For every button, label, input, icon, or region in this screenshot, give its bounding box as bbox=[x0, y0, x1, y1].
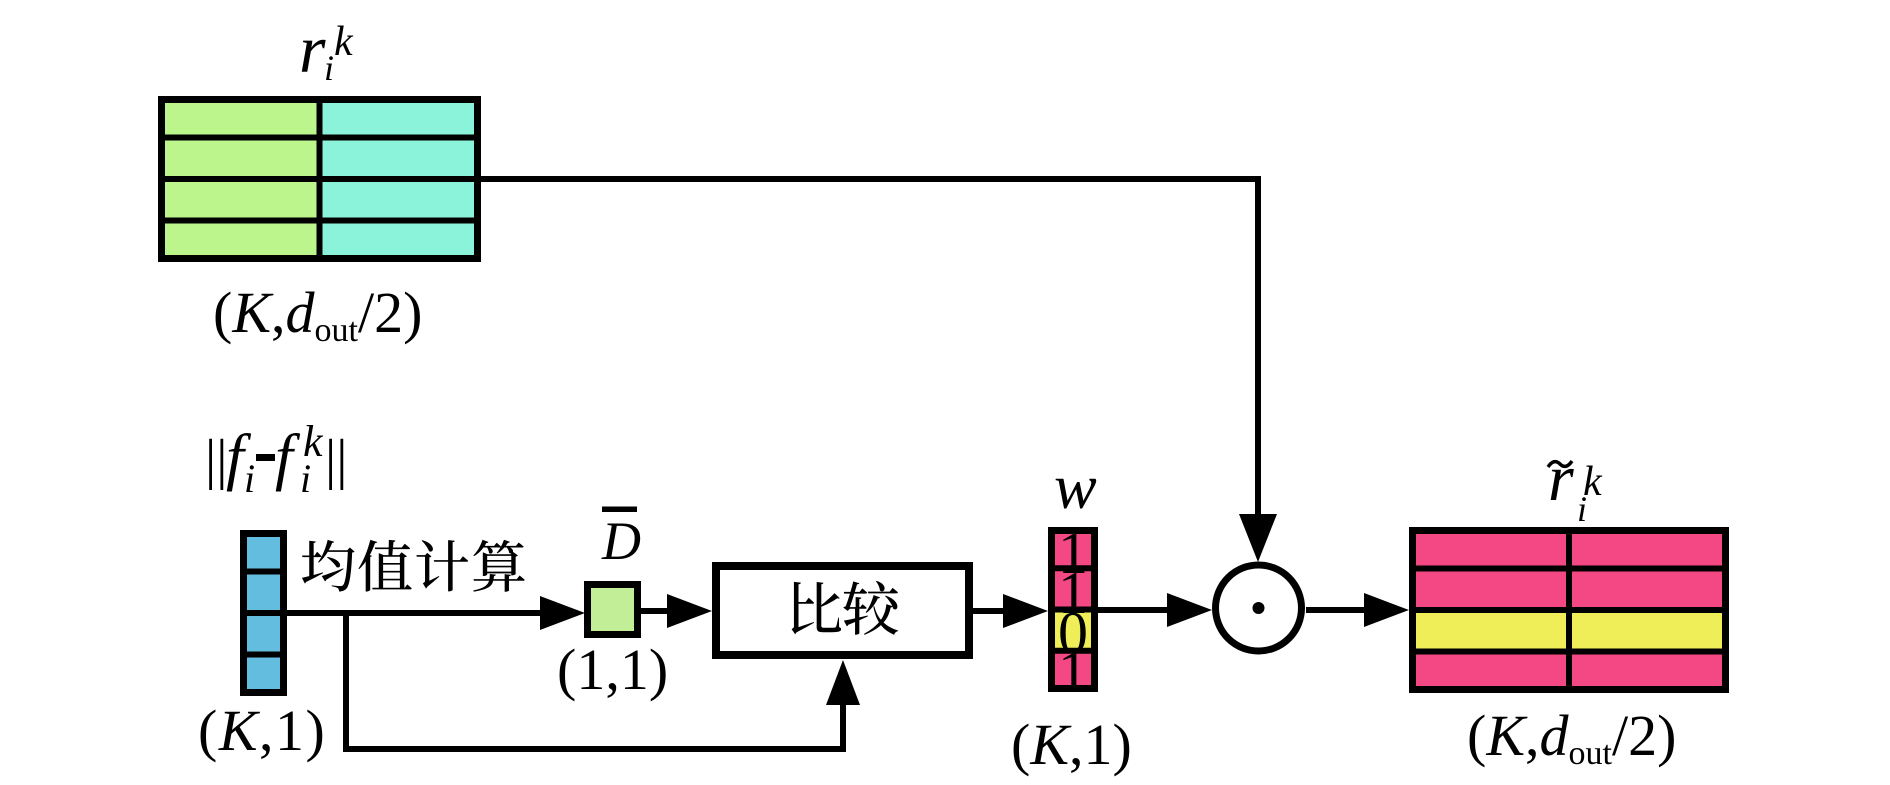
svg-text:(K,1): (K,1) bbox=[1011, 712, 1132, 777]
wire D to compare box bbox=[641, 608, 672, 614]
wire compare box to w bbox=[973, 608, 1008, 614]
wire matrix r_i^k to multiplier bbox=[481, 179, 1258, 514]
svg-text:D: D bbox=[601, 511, 641, 571]
vector ||f_i-f_i^k|| values bbox=[240, 530, 287, 696]
svg-text:(K,1): (K,1) bbox=[198, 698, 326, 763]
svg-text:f: f bbox=[275, 421, 301, 492]
svg-text:(K,dout/2): (K,dout/2) bbox=[213, 280, 422, 349]
multiplier circle (element-wise product) bbox=[1216, 565, 1302, 651]
svg-text:||: || bbox=[205, 429, 227, 491]
arrowhead into output matrix bbox=[1364, 593, 1409, 627]
label ||f_i-f_i^k|| bbox=[205, 417, 347, 501]
svg-text:r: r bbox=[299, 11, 326, 87]
arrowhead into compare box bbox=[667, 594, 712, 628]
svg-text:(1,1): (1,1) bbox=[557, 637, 668, 702]
matrix r_i^k bbox=[158, 96, 481, 262]
wire vector to D bbox=[287, 610, 545, 616]
node D mean square bbox=[588, 585, 638, 635]
arrowhead into compare box bottom bbox=[826, 660, 860, 705]
svg-text:i: i bbox=[1577, 489, 1587, 529]
svg-text:i: i bbox=[324, 48, 334, 88]
svg-text:||: || bbox=[325, 429, 347, 491]
vector w values 1 1 0 1 bbox=[1048, 520, 1098, 705]
label 均值计算 (mean calculation) bbox=[302, 540, 525, 592]
arrowhead into w bbox=[1003, 594, 1048, 628]
arrowhead into D bbox=[540, 596, 585, 630]
label D with overbar bbox=[601, 507, 641, 572]
wire multiplier to output matrix bbox=[1306, 607, 1369, 613]
svg-text:w: w bbox=[1054, 451, 1097, 522]
branch wire vector to compare box bbox=[346, 613, 843, 749]
compare box 比较 bbox=[716, 566, 969, 655]
label (K,d_out/2) top bbox=[213, 280, 422, 349]
wire w to multiplier bbox=[1098, 607, 1172, 613]
svg-text:i: i bbox=[244, 456, 255, 501]
arrowhead into multiplier top bbox=[1239, 514, 1277, 562]
svg-text:i: i bbox=[300, 456, 311, 501]
label r~_i^k bbox=[1548, 442, 1603, 529]
output matrix r~_i^k bbox=[1409, 527, 1729, 693]
label r_i^k bbox=[299, 11, 354, 88]
svg-text:k: k bbox=[334, 19, 354, 65]
svg-text:1: 1 bbox=[1058, 639, 1088, 705]
arrowhead into multiplier left bbox=[1167, 593, 1212, 627]
svg-text:(K,dout/2): (K,dout/2) bbox=[1467, 703, 1676, 772]
svg-text:r: r bbox=[1548, 442, 1574, 515]
